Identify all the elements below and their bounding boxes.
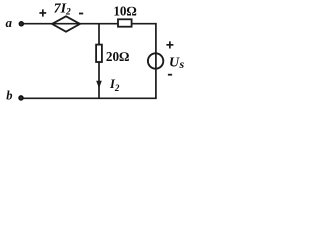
resistor R1 10ohm box xyxy=(118,19,132,26)
svg-text:7I2: 7I2 xyxy=(54,1,71,17)
svg-text:20Ω: 20Ω xyxy=(106,49,129,64)
top wire (node a to top-right corner) xyxy=(23,23,156,25)
svg-text:Us: Us xyxy=(169,56,185,72)
svg-text:10Ω: 10Ω xyxy=(113,4,136,19)
wire middle branch upper xyxy=(98,24,100,45)
terminal a xyxy=(19,22,23,26)
wire right branch (top-right corner down to bottom-right corner) xyxy=(155,23,157,99)
minus sign of dependent source xyxy=(79,13,83,15)
terminal b xyxy=(19,96,23,100)
svg-text:a: a xyxy=(6,15,13,30)
svg-text:I2: I2 xyxy=(109,77,120,93)
svg-text:b: b xyxy=(6,89,12,103)
plus sign of dependent source xyxy=(39,9,46,16)
minus sign of Us xyxy=(168,74,172,76)
voltage source Us circle xyxy=(148,53,163,68)
wire middle branch lower xyxy=(98,62,100,99)
bottom wire (node b to bottom-right corner) xyxy=(23,97,157,99)
current arrow I2 xyxy=(96,81,102,89)
dependent source E1 diamond (7I2) xyxy=(52,16,80,31)
resistor R2 20ohm box xyxy=(96,45,102,62)
plus sign of Us xyxy=(166,41,173,48)
